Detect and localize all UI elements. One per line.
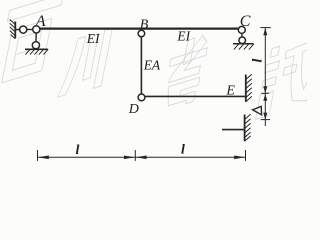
svg-text:EI: EI <box>176 29 191 44</box>
wire stub at lower wall <box>222 129 245 131</box>
wire C down <box>241 33 243 37</box>
support A wall <box>10 20 16 39</box>
hinge circle C <box>238 26 245 33</box>
roller circle C <box>239 37 246 44</box>
svg-text:EI: EI <box>86 31 101 46</box>
label Delta (rotated triangle glyph) <box>253 106 262 114</box>
ground under A <box>25 49 48 54</box>
svg-text:B: B <box>140 17 149 32</box>
svg-text:D: D <box>128 102 139 117</box>
svg-text:A: A <box>35 13 46 30</box>
watermark char chuan <box>57 28 112 99</box>
watermark char bai <box>0 0 63 85</box>
svg-text:l: l <box>76 143 80 158</box>
svg-text:E: E <box>225 84 235 99</box>
beam ABC <box>40 28 239 30</box>
hinge circle below A <box>32 42 39 49</box>
wire between circles <box>27 29 33 31</box>
ground under C <box>233 44 254 50</box>
hinge circle B <box>138 30 145 37</box>
dimension line right vertical <box>260 28 271 126</box>
support wall E <box>246 74 252 102</box>
hinge circle A <box>33 26 40 33</box>
svg-text:l: l <box>250 59 265 63</box>
member DE <box>145 95 246 97</box>
watermark char shi <box>256 34 320 120</box>
watermark char kao <box>161 33 210 111</box>
svg-text:l: l <box>181 143 185 158</box>
dimension line bottom <box>38 150 246 161</box>
svg-text:EA: EA <box>143 58 161 73</box>
watermark <box>0 0 320 120</box>
lower wall (settled support) <box>245 114 251 141</box>
wire A down <box>35 33 37 42</box>
wire wall to left circle <box>15 29 19 31</box>
member BD <box>140 37 142 94</box>
hinge circle D <box>138 94 145 101</box>
hinge circle left of A <box>20 26 27 33</box>
svg-text:C: C <box>240 13 251 30</box>
